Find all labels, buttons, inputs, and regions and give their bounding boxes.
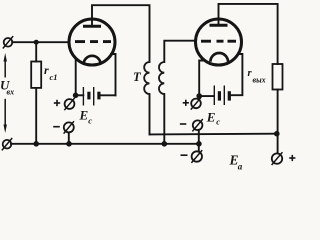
svg-text:а: а [238, 162, 243, 172]
svg-text:с1: с1 [50, 72, 58, 82]
svg-text:r: r [44, 63, 49, 77]
svg-text:вых: вых [253, 76, 266, 85]
svg-text:вх: вх [7, 88, 15, 97]
svg-text:E: E [206, 110, 216, 125]
svg-text:E: E [79, 108, 89, 123]
svg-text:с: с [88, 116, 92, 126]
svg-text:с: с [216, 117, 220, 127]
